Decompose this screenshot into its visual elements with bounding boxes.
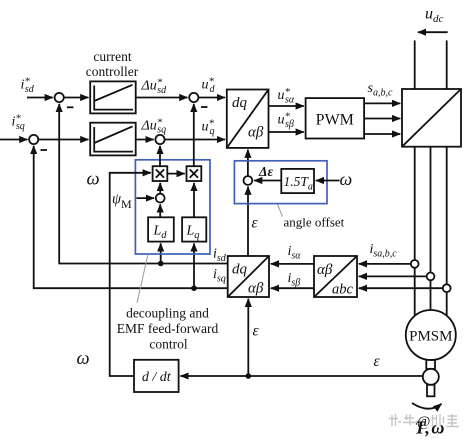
callout line angle offset <box>278 205 283 217</box>
wire Ld to psi circle <box>159 204 161 217</box>
wire S4 to dq box <box>165 139 225 141</box>
wire M1 to M2 <box>167 173 184 175</box>
wire phase a <box>414 147 416 322</box>
wire DC bus right <box>446 40 448 89</box>
dq/alphabeta transform box U1 <box>227 90 269 148</box>
node junction dot epsilon <box>246 373 252 379</box>
wire phase b <box>430 147 432 315</box>
svg-text:αβ: αβ <box>248 281 264 297</box>
svg-text:u*q: u*q <box>202 118 215 138</box>
current sensor a <box>411 260 419 268</box>
svg-text:αβ: αβ <box>317 262 333 278</box>
current controller box q <box>90 123 136 156</box>
wire i_sq to Lq <box>193 243 195 288</box>
label minus S3 <box>201 106 208 108</box>
alphabeta/abc transform box U2 <box>314 256 357 298</box>
svg-text:controller: controller <box>86 64 139 79</box>
rotation arrow arc <box>412 403 442 409</box>
wire M1 up to S4 <box>159 146 161 166</box>
wire M2 up to S3 <box>193 104 195 166</box>
wire omega into 1.5Ta <box>316 180 340 182</box>
label minus S1 <box>67 106 74 108</box>
wire omega feedback <box>110 173 151 376</box>
svg-text:Δε: Δε <box>258 164 273 179</box>
wire epsilon dq2 top to angle sum <box>247 187 249 256</box>
delay block 1.5Ta <box>281 169 314 193</box>
wire i_sd feedback <box>59 104 228 264</box>
svg-text:current: current <box>93 49 131 64</box>
svg-text:ε: ε <box>253 323 260 340</box>
callout line decoupling <box>137 254 148 303</box>
wire S3 to dq box <box>198 97 225 99</box>
current sensor c <box>443 284 451 292</box>
node junction dot i_sq <box>191 285 197 291</box>
svg-text:ω: ω <box>77 349 90 369</box>
inductance block Ld <box>148 217 174 241</box>
wire i_sbeta <box>271 287 314 289</box>
dq/alphabeta current transform box U3 <box>228 256 269 297</box>
inductance block Lq <box>182 217 206 241</box>
wire epsilon horizontal from encoder to d/dt <box>180 375 422 377</box>
encoder circle <box>423 369 439 385</box>
node: summing junction S1 <box>55 93 64 102</box>
svg-text:control: control <box>149 337 187 352</box>
svg-text:αβ: αβ <box>248 125 264 141</box>
wire i_salpha <box>271 263 314 265</box>
wire sensor a to abc box <box>359 263 411 265</box>
label minus S2 <box>41 149 48 151</box>
svg-text:ε: ε <box>374 353 381 370</box>
svg-text:dq: dq <box>232 262 248 278</box>
node: summing junction S3 (u_d) <box>189 93 198 102</box>
node: summing junction S4 (u_q) <box>155 135 164 144</box>
wire i_sd* input <box>27 97 53 99</box>
wire u_sbeta to PWM <box>269 131 304 133</box>
wire u_salpha to PWM <box>269 105 304 107</box>
wire psi circle to M1 <box>159 183 161 194</box>
node junction dot i_sd <box>158 261 164 267</box>
watermark zhihu <box>389 414 417 426</box>
wire angle sum to dq1 <box>247 150 249 176</box>
svg-text:angle offset: angle offset <box>284 215 345 230</box>
svg-text:ω: ω <box>87 170 100 190</box>
wire epsilon up into dq2 <box>247 299 249 376</box>
u_dc arrow <box>418 31 448 33</box>
wire phase c <box>446 147 448 322</box>
svg-text:PWM: PWM <box>316 112 354 129</box>
current controller box d <box>90 81 136 113</box>
wire Lq to M2 <box>193 183 195 217</box>
wire i_sd to Ld <box>160 243 162 263</box>
node: angle offset summing circle <box>244 176 253 185</box>
wire 1.5Ta to angle sum <box>254 180 281 182</box>
svg-text:dq: dq <box>232 95 248 111</box>
shaft lower <box>427 385 435 397</box>
d/dt block <box>134 360 179 392</box>
inverter box <box>402 89 461 147</box>
wire i_sq* input <box>0 139 27 141</box>
wire psi_M input <box>137 197 155 199</box>
wire sensor b to abc box <box>359 275 427 277</box>
wire S1 to current controller d <box>64 97 89 99</box>
wire sensor c to abc box <box>359 287 443 289</box>
svg-text:abc: abc <box>332 282 354 298</box>
svg-text:@: @ <box>417 414 430 430</box>
PWM box <box>306 98 365 138</box>
svg-text:decoupling and: decoupling and <box>126 306 209 321</box>
wire DC bus left <box>414 40 416 89</box>
svg-text:ω: ω <box>340 169 353 189</box>
node: small summing circle psi <box>156 194 165 203</box>
multiplier M2 <box>187 166 202 181</box>
wire s_b PWM to inverter <box>364 118 400 120</box>
wire s_c PWM to inverter <box>364 133 400 135</box>
wire s_a PWM to inverter <box>364 102 400 104</box>
wire i_sq feedback <box>34 146 228 288</box>
svg-text:ε: ε <box>252 215 259 232</box>
svg-text:EMF feed-forward: EMF feed-forward <box>117 321 219 336</box>
PMSM motor <box>406 310 456 360</box>
wire S2 to current controller q <box>38 139 88 141</box>
wire controller q to summing S4 <box>136 139 154 141</box>
blue box: decoupling block <box>135 160 210 254</box>
blue box: angle offset block <box>234 161 327 204</box>
svg-text:d / dt: d / dt <box>142 370 172 385</box>
shaft upper <box>426 360 435 369</box>
node: summing junction S2 <box>29 135 38 144</box>
wire controller d to summing S3 <box>136 97 188 99</box>
current sensor b <box>427 273 435 281</box>
svg-text:PMSM: PMSM <box>409 329 452 345</box>
multiplier M1 <box>153 166 168 181</box>
